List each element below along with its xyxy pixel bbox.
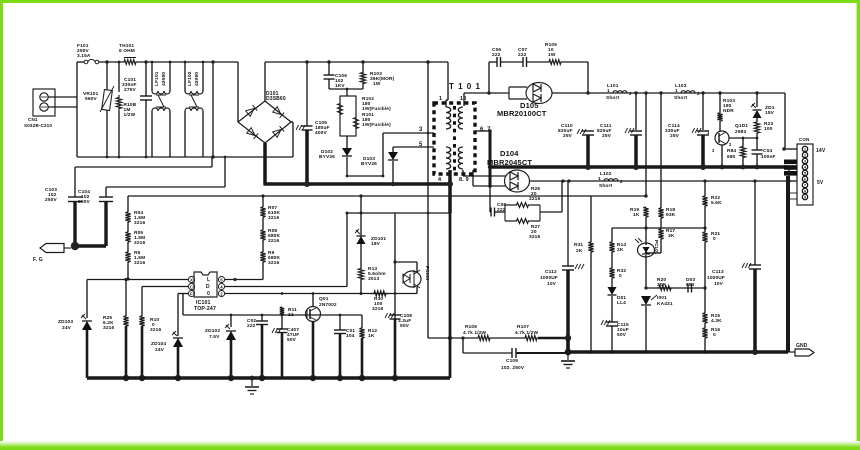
shunt regulator I001 KA431 — [641, 296, 651, 305]
zener ZD102 — [230, 315, 232, 327]
svg-text:R84: R84 — [727, 148, 736, 154]
svg-text:1: 1 — [439, 96, 442, 102]
svg-text:2: 2 — [629, 91, 632, 97]
svg-text:1W: 1W — [373, 81, 381, 87]
capacitor C104 — [105, 187, 107, 197]
svg-text:0: 0 — [713, 332, 716, 338]
svg-text:1000UF: 1000UF — [707, 275, 725, 281]
winding secondary top — [458, 107, 463, 129]
svg-text:25V: 25V — [602, 133, 612, 139]
svg-text:R107: R107 — [517, 324, 529, 330]
diode D103 — [392, 147, 394, 152]
svg-text:BYV26: BYV26 — [361, 161, 377, 167]
svg-text:2K: 2K — [576, 248, 583, 254]
thermistor TH101 — [122, 60, 138, 65]
svg-text:2N7002: 2N7002 — [319, 302, 337, 308]
capacitor C112 — [567, 181, 569, 266]
svg-text:12: 12 — [288, 312, 294, 318]
capacitor C110 — [577, 129, 580, 134]
svg-text:L102: L102 — [600, 171, 612, 177]
svg-text:2: 2 — [697, 91, 700, 97]
resistors R07 R08 R9 chain — [262, 196, 264, 207]
svg-text:24V: 24V — [155, 347, 165, 353]
resistor R30 — [371, 291, 389, 296]
wire CN1 to fuse — [48, 96, 77, 98]
wire CON 5V — [788, 167, 790, 181]
wire primary bottom rail bold — [87, 376, 450, 380]
svg-text:100nF: 100nF — [761, 154, 776, 160]
wire gate bus — [182, 294, 184, 316]
resistor R13 — [358, 268, 363, 280]
resistor R106 — [477, 335, 491, 340]
capacitor C04 — [756, 138, 758, 150]
wire snubber return — [347, 175, 383, 177]
zener ZD101 — [360, 196, 362, 213]
resistor R22 — [703, 179, 706, 182]
earth ground primary — [251, 378, 253, 386]
svg-text:93K: 93K — [666, 212, 676, 218]
capacitor D03 — [687, 284, 689, 293]
svg-text:6 OHM: 6 OHM — [119, 48, 135, 54]
svg-text:250V: 250V — [45, 197, 57, 203]
winding primary top — [446, 107, 451, 129]
svg-text:PC101: PC101 — [425, 266, 430, 281]
svg-text:42080: 42080 — [194, 72, 200, 86]
svg-text:10V: 10V — [714, 281, 724, 287]
wire R17 bottom link — [646, 252, 661, 254]
resistor R103 NDR — [718, 91, 721, 94]
winding primary bottom — [446, 147, 451, 169]
svg-text:683: 683 — [686, 282, 695, 288]
svg-text:TOP-247: TOP-247 — [194, 306, 216, 312]
svg-text:1K: 1K — [368, 333, 375, 339]
svg-text:275V: 275V — [124, 87, 136, 93]
earth ground secondary — [567, 352, 569, 360]
resistor R25 — [125, 280, 127, 317]
wire snubber bottom — [329, 88, 363, 90]
svg-text:5V: 5V — [817, 180, 824, 186]
fuse F101 — [84, 60, 88, 64]
wire AC top rail — [77, 61, 84, 63]
wire pins 8 9 to D104 — [462, 170, 464, 176]
svg-text:L: L — [207, 277, 210, 283]
wire AC vertical — [76, 62, 78, 157]
resistor R103 — [361, 60, 364, 63]
capacitor C115 — [606, 321, 618, 323]
optocoupler PC101 transistor side — [394, 213, 396, 378]
wire bridge right to AC rail — [291, 121, 293, 123]
svg-text:5.6K: 5.6K — [711, 200, 722, 206]
resistor R19 — [643, 207, 648, 217]
line filter LF102 — [184, 61, 187, 64]
wire bridge top to DC rail — [264, 62, 266, 101]
svg-text:0: 0 — [619, 273, 622, 279]
wire DC+ rail — [265, 61, 428, 63]
svg-text:3K: 3K — [668, 233, 675, 239]
svg-text:104: 104 — [346, 333, 355, 339]
wire pin10 to D105 — [463, 93, 465, 106]
resistor R20 — [657, 286, 673, 291]
svg-text:I001: I001 — [657, 295, 667, 301]
svg-text:30K: 30K — [657, 282, 667, 288]
svg-text:ZD104: ZD104 — [151, 341, 166, 347]
wire AC return vertical — [212, 62, 214, 157]
resistors R04 R05 R6 chain — [127, 196, 129, 212]
svg-text:LF102: LF102 — [187, 71, 193, 86]
resistor R31 — [588, 242, 593, 252]
resistor R11 — [280, 307, 284, 315]
resistor R32 — [609, 268, 614, 278]
svg-text:50V: 50V — [400, 323, 410, 329]
wire secondary ground down bold — [786, 176, 790, 352]
svg-text:3216: 3216 — [134, 240, 145, 246]
resistors R26 R27 parallel — [504, 205, 506, 221]
svg-text:3216: 3216 — [103, 325, 114, 331]
capacitor C111 — [634, 91, 637, 94]
svg-text:222: 222 — [518, 52, 527, 58]
wire rail fuse to TH101 — [99, 61, 122, 63]
capacitor C103 — [74, 167, 76, 197]
wire IC101 pin F row — [178, 293, 188, 295]
resistor R18 — [658, 208, 663, 218]
svg-text:MBR20100CT: MBR20100CT — [497, 109, 547, 118]
svg-text:1: 1 — [598, 176, 601, 182]
svg-text:4.7k 1/2W: 4.7k 1/2W — [463, 330, 487, 336]
svg-text:3216: 3216 — [268, 215, 279, 221]
varistor VR101 — [105, 60, 108, 63]
svg-text:ZD102: ZD102 — [205, 328, 220, 334]
wire C104 to AC rail — [106, 186, 225, 188]
wire bridge bottom bold — [263, 143, 267, 184]
dual diode D105 — [489, 92, 509, 94]
svg-text:LL4: LL4 — [617, 300, 626, 306]
wire pin3 to drain — [382, 133, 384, 176]
svg-text:102. 250V: 102. 250V — [501, 365, 525, 371]
wire feedback row — [644, 286, 647, 289]
svg-text:ZD103: ZD103 — [58, 319, 73, 325]
wire pin4 bold — [448, 170, 452, 213]
wire AC bottom rail — [77, 156, 293, 158]
svg-text:1W(Fusible): 1W(Fusible) — [362, 106, 391, 112]
resistor R10B — [118, 61, 121, 64]
svg-text:50V: 50V — [617, 332, 627, 338]
svg-text:C109: C109 — [506, 358, 518, 364]
svg-text:3216: 3216 — [529, 196, 540, 202]
svg-text:18V: 18V — [371, 241, 381, 247]
capacitor C105 — [305, 60, 308, 63]
svg-text:100: 100 — [764, 126, 773, 132]
svg-text:X: X — [190, 277, 193, 282]
svg-text:D104: D104 — [500, 149, 519, 158]
wire rail to bridge left — [237, 62, 239, 122]
svg-text:3216: 3216 — [134, 260, 145, 266]
frame ground F.G — [73, 202, 76, 247]
svg-text:1W(Fusible): 1W(Fusible) — [362, 122, 391, 128]
wire IC101 row2 — [225, 286, 347, 288]
svg-text:MBR2045CT: MBR2045CT — [487, 158, 532, 167]
svg-text:560V: 560V — [85, 96, 97, 102]
svg-text:3216: 3216 — [134, 220, 145, 226]
diode D102 — [342, 148, 352, 156]
svg-text:50V: 50V — [287, 337, 297, 343]
wire IC101 control row — [225, 293, 417, 295]
svg-text:BYV26: BYV26 — [319, 154, 335, 160]
svg-text:10: 10 — [460, 96, 466, 102]
svg-text:3216: 3216 — [372, 306, 383, 312]
zener ZD104 — [177, 294, 179, 337]
wire bottom rail secondary bold — [568, 350, 788, 354]
svg-text:7.5V: 7.5V — [209, 334, 220, 340]
wire 5V rail — [529, 180, 789, 182]
resistors R102 R101 parallel — [340, 96, 356, 136]
wire CON aux pins — [790, 192, 797, 194]
svg-text:2: 2 — [620, 179, 623, 185]
svg-text:C113: C113 — [712, 269, 724, 275]
wire R31 branch — [591, 195, 646, 197]
svg-text:R106: R106 — [465, 324, 477, 330]
svg-text:Q01: Q01 — [319, 296, 329, 302]
svg-text:3216: 3216 — [268, 238, 279, 244]
wire pin6.7 — [475, 130, 490, 132]
GND terminal — [752, 349, 758, 355]
wire C103 to AC rail — [75, 166, 212, 168]
capacitor C113 — [753, 179, 756, 182]
svg-text:Short: Short — [674, 95, 688, 101]
wire pin1 from rail — [428, 61, 448, 63]
capacitor C114 — [701, 91, 704, 94]
svg-text:CON: CON — [799, 137, 809, 142]
svg-text:4.7k 1/2W: 4.7k 1/2W — [515, 330, 539, 336]
wire secondary ground bus bold — [489, 131, 492, 186]
wire clamp row — [347, 212, 450, 214]
svg-text:8. 9: 8. 9 — [459, 177, 469, 183]
line filter LF101 — [151, 61, 154, 64]
svg-text:C04: C04 — [763, 148, 772, 154]
svg-text:R31: R31 — [574, 242, 583, 248]
wire Q101 emitter — [729, 137, 757, 139]
svg-text:1KV: 1KV — [335, 83, 345, 89]
svg-text:222: 222 — [247, 323, 256, 329]
wire 14V corner to CON — [784, 93, 786, 149]
svg-text:25V: 25V — [563, 133, 573, 139]
svg-text:250V: 250V — [78, 199, 90, 205]
svg-text:1W: 1W — [548, 52, 556, 58]
svg-text:3216: 3216 — [268, 260, 279, 266]
svg-text:S032B-C210: S032B-C210 — [24, 123, 52, 128]
resistor R15 — [704, 288, 706, 313]
capacitor C106 — [327, 60, 330, 63]
wire R21 link — [646, 227, 705, 229]
svg-text:0: 0 — [207, 291, 210, 297]
svg-text:F. G: F. G — [33, 257, 43, 263]
svg-text:Q1D1: Q1D1 — [735, 123, 748, 129]
svg-text:1K: 1K — [633, 212, 640, 218]
svg-text:Short: Short — [606, 95, 620, 101]
svg-text:1000UF: 1000UF — [540, 275, 558, 281]
resistor R107 — [491, 337, 524, 339]
svg-text:680: 680 — [727, 154, 736, 160]
svg-text:T 1 0 1: T 1 0 1 — [449, 82, 481, 91]
winding secondary bottom — [458, 147, 463, 169]
wire mid sense line — [128, 195, 591, 197]
wire R106 R107 row — [428, 337, 477, 339]
zener ZD1 — [755, 91, 758, 94]
svg-text:D: D — [206, 284, 210, 290]
svg-text:5: 5 — [419, 142, 423, 148]
wire IC101 pin X row — [87, 279, 188, 281]
transistor Q01 2N7002 — [306, 307, 321, 322]
svg-text:LF101: LF101 — [154, 71, 160, 86]
dual diode D104 — [490, 175, 506, 177]
svg-text:3013: 3013 — [368, 276, 379, 282]
diode D01 — [608, 287, 617, 295]
svg-text:42080: 42080 — [161, 72, 167, 86]
resistor R16 — [702, 328, 707, 338]
capacitor C109 — [462, 338, 464, 353]
wire R14 branch — [612, 227, 646, 229]
svg-text:24V: 24V — [62, 325, 72, 331]
capacitor C02 — [261, 315, 263, 321]
svg-text:1: 1 — [607, 88, 610, 94]
resistor R14 — [609, 242, 614, 252]
wire rail TH101 to bridge — [138, 61, 238, 63]
connector CN1 — [33, 89, 55, 116]
wire pin4 return vertical bold — [449, 213, 452, 378]
capacitor C101 — [144, 60, 147, 63]
svg-text:KA431: KA431 — [657, 301, 673, 307]
svg-text:3216: 3216 — [150, 327, 161, 333]
resistor R12 — [361, 315, 363, 328]
wire pin5 — [393, 146, 434, 148]
zener ZD103 — [86, 280, 88, 319]
capacitor C407 — [281, 315, 283, 329]
svg-text:15V: 15V — [765, 110, 775, 116]
svg-text:1/2W: 1/2W — [124, 112, 136, 118]
svg-text:D3SB60: D3SB60 — [266, 96, 286, 102]
capacitor C01 — [339, 315, 341, 330]
svg-text:3: 3 — [419, 127, 423, 133]
wire IC101 pin C row — [142, 286, 188, 288]
svg-text:1: 1 — [675, 88, 678, 94]
svg-text:CN1: CN1 — [28, 117, 38, 122]
svg-text:10V: 10V — [547, 281, 557, 287]
svg-text:0: 0 — [713, 236, 716, 242]
wire R18 feed vertical — [659, 91, 662, 94]
svg-text:3216: 3216 — [529, 234, 540, 240]
svg-text:F: F — [190, 291, 193, 296]
capacitor C108 — [390, 314, 401, 316]
wire drain vertical — [426, 60, 429, 63]
svg-text:4.3K: 4.3K — [711, 318, 722, 324]
snubber C06 C07 R105 — [488, 62, 490, 93]
svg-text:NDR: NDR — [723, 108, 734, 114]
svg-text:3.15A: 3.15A — [77, 53, 91, 59]
bridge rectifier D101 — [238, 101, 265, 122]
resistor R84 — [742, 138, 744, 146]
svg-text:25V: 25V — [670, 133, 680, 139]
snubber C08 — [489, 186, 491, 212]
wire CON ground bars — [784, 160, 797, 165]
wire 14V rail — [552, 92, 785, 94]
transistor Q101 — [715, 131, 729, 145]
svg-text:14V: 14V — [816, 148, 826, 154]
wire IC101 drain row — [225, 279, 263, 281]
wire R19 feed vertical — [644, 91, 647, 94]
svg-text:GND: GND — [796, 343, 808, 349]
svg-text:C112: C112 — [545, 269, 557, 275]
svg-text:400V: 400V — [315, 130, 327, 136]
svg-text:Short: Short — [599, 183, 613, 189]
resistor R10 — [141, 287, 143, 317]
wire primary return bus bold — [263, 182, 450, 186]
resistor R17 — [658, 229, 663, 239]
svg-text:2K: 2K — [617, 247, 624, 253]
resistor R23 — [756, 118, 758, 122]
IC101 TOP-247 — [194, 272, 217, 297]
svg-text:2983: 2983 — [735, 129, 746, 135]
svg-text:222: 222 — [492, 52, 501, 58]
optocoupler PC101 diode side — [638, 243, 655, 257]
resistor R21 — [702, 232, 707, 242]
